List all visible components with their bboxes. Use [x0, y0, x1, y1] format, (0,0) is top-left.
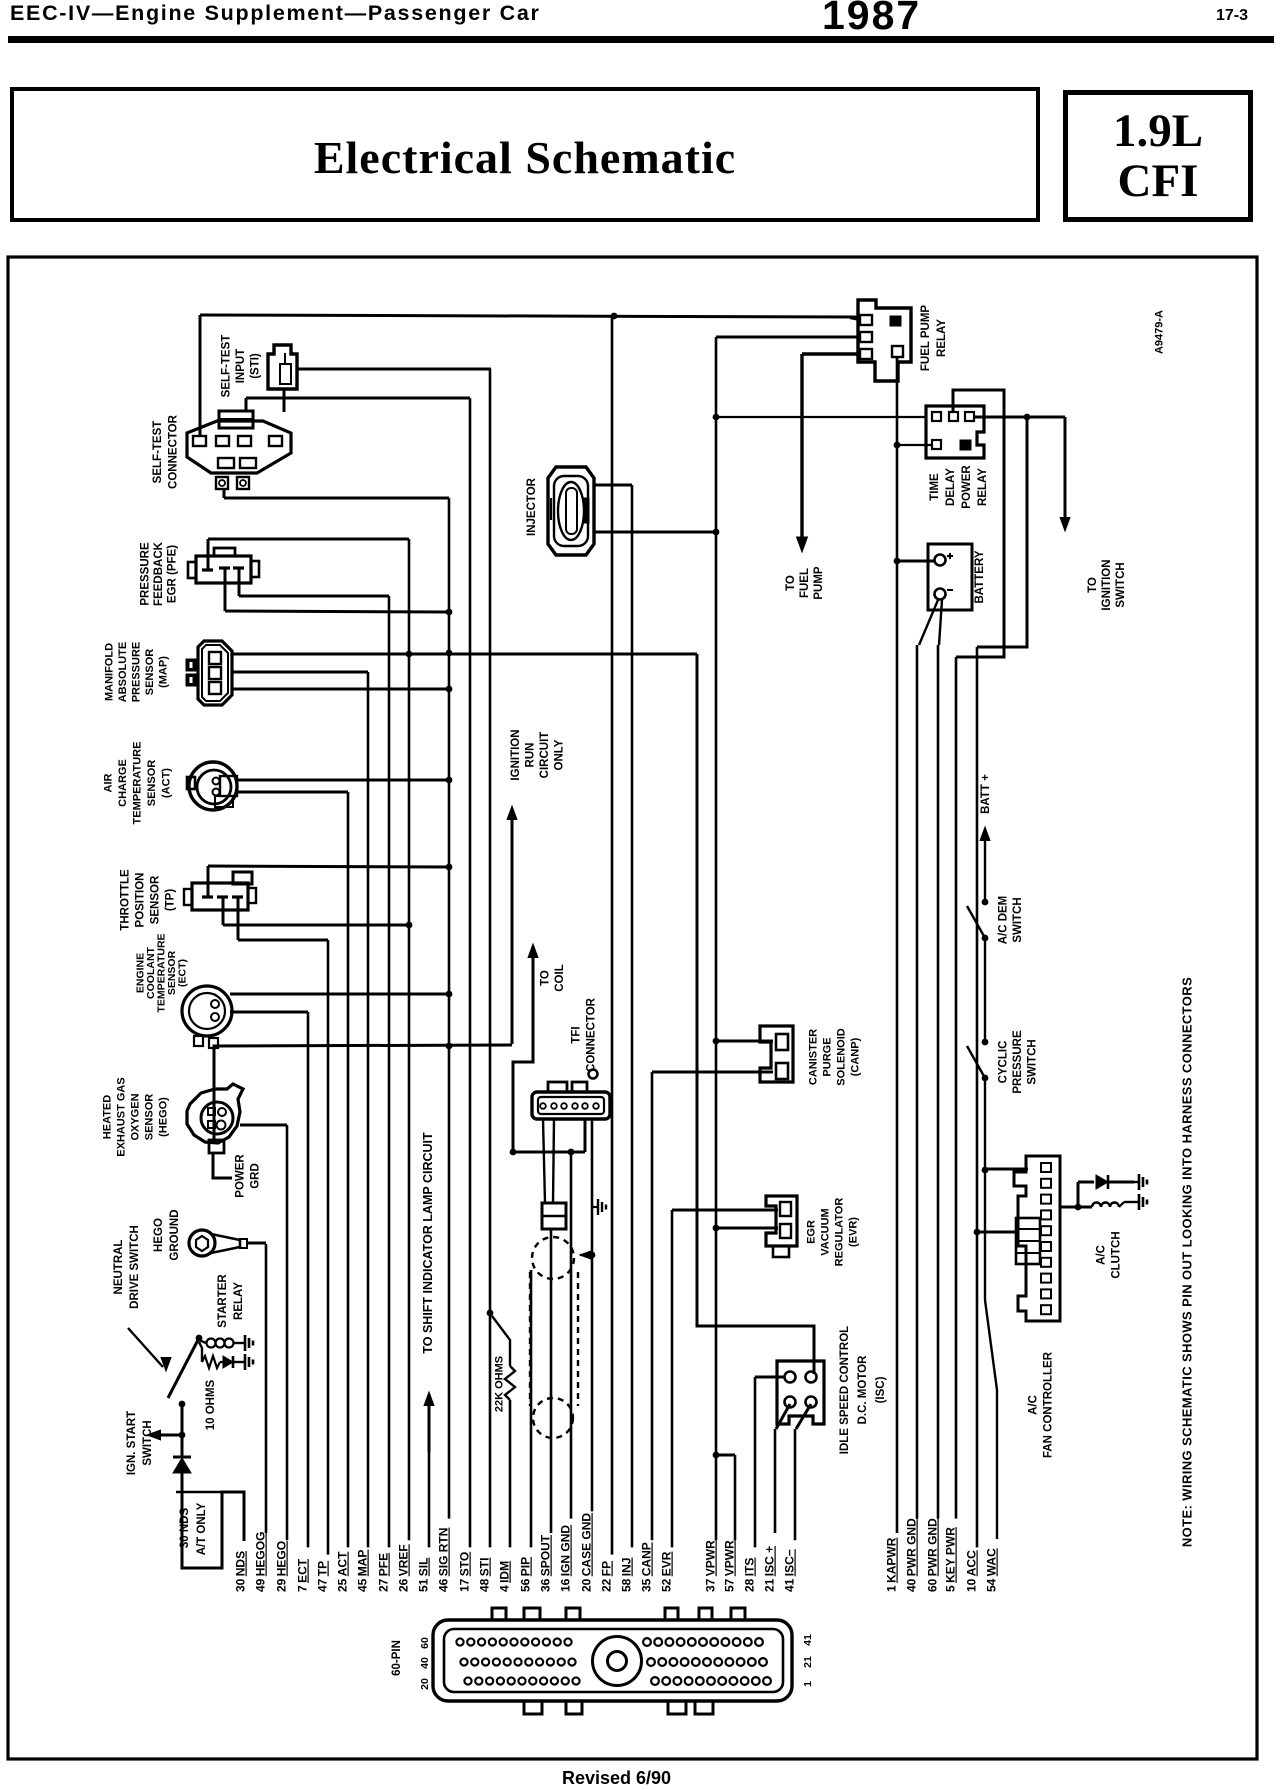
svg-text:4 IDM: 4 IDM — [498, 1561, 512, 1592]
svg-text:A/C DEM: A/C DEM — [998, 896, 1010, 945]
svg-text:20: 20 — [419, 1678, 431, 1690]
svg-text:FUEL PUMP: FUEL PUMP — [920, 305, 932, 372]
svg-text:(ECT): (ECT) — [177, 959, 189, 987]
svg-text:(ACT): (ACT) — [161, 768, 173, 798]
svg-text:30 NDS: 30 NDS — [179, 1508, 191, 1549]
svg-text:41: 41 — [802, 1634, 814, 1646]
svg-text:PRESSURE: PRESSURE — [139, 542, 151, 606]
svg-text:1: 1 — [802, 1681, 814, 1687]
svg-text:10 ACC: 10 ACC — [965, 1550, 979, 1592]
svg-text:SENSOR: SENSOR — [144, 649, 156, 696]
svg-text:OXYGEN: OXYGEN — [130, 1093, 142, 1140]
svg-text:PURGE: PURGE — [822, 1037, 834, 1076]
svg-text:POWER: POWER — [234, 1154, 246, 1198]
svg-text:10 OHMS: 10 OHMS — [205, 1379, 217, 1430]
svg-text:PRESSURE: PRESSURE — [131, 642, 143, 703]
svg-text:CONNECTOR: CONNECTOR — [168, 414, 180, 489]
svg-text:26 VREF: 26 VREF — [397, 1544, 411, 1592]
svg-text:21: 21 — [802, 1656, 814, 1668]
svg-text:17 STO: 17 STO — [458, 1552, 472, 1592]
svg-text:60 PWR GND: 60 PWR GND — [926, 1518, 940, 1592]
svg-text:25 ACT: 25 ACT — [336, 1551, 350, 1592]
svg-text:HEATED: HEATED — [102, 1095, 114, 1139]
svg-text:CHARGE: CHARGE — [117, 759, 129, 807]
svg-text:51 SIL: 51 SIL — [417, 1558, 431, 1592]
svg-text:CANISTER: CANISTER — [808, 1029, 820, 1085]
svg-text:FAN CONTROLLER: FAN CONTROLLER — [1042, 1351, 1054, 1458]
svg-text:IGNITION: IGNITION — [1101, 559, 1113, 610]
svg-text:(EVR): (EVR) — [848, 1217, 860, 1247]
svg-text:CYCLIC: CYCLIC — [997, 1041, 1009, 1084]
svg-text:46 SIG RTN: 46 SIG RTN — [437, 1528, 451, 1592]
svg-text:5 KEY PWR: 5 KEY PWR — [944, 1527, 958, 1592]
svg-text:TIME: TIME — [929, 473, 941, 501]
svg-text:SENSOR: SENSOR — [144, 1094, 156, 1141]
svg-text:PRESSURE: PRESSURE — [1012, 1030, 1024, 1094]
svg-text:SENSOR: SENSOR — [149, 875, 161, 924]
svg-text:RELAY: RELAY — [936, 319, 948, 357]
svg-text:35 CANP: 35 CANP — [640, 1542, 654, 1592]
svg-text:ONLY: ONLY — [554, 739, 566, 770]
svg-text:20 CASE GND: 20 CASE GND — [580, 1513, 594, 1592]
svg-text:MANIFOLD: MANIFOLD — [104, 643, 116, 701]
svg-text:TO: TO — [540, 970, 552, 986]
svg-text:TEMPERATURE: TEMPERATURE — [132, 742, 144, 825]
svg-text:1 KAPWR: 1 KAPWR — [885, 1537, 899, 1592]
svg-text:40 PWR GND: 40 PWR GND — [905, 1518, 919, 1592]
svg-text:GRD: GRD — [249, 1163, 261, 1189]
svg-text:21 ISC +: 21 ISC + — [763, 1546, 777, 1592]
svg-text:7 ECT: 7 ECT — [296, 1558, 310, 1592]
svg-text:IDLE SPEED CONTROL: IDLE SPEED CONTROL — [839, 1326, 851, 1454]
svg-text:30 NDS: 30 NDS — [234, 1551, 248, 1592]
svg-text:EXHAUST GAS: EXHAUST GAS — [116, 1077, 128, 1156]
svg-text:RUN: RUN — [525, 743, 537, 768]
svg-text:57 VPWR: 57 VPWR — [723, 1540, 737, 1592]
svg-text:29 HEGO: 29 HEGO — [275, 1541, 289, 1592]
svg-text:POSITION: POSITION — [134, 873, 146, 928]
svg-text:HEGO: HEGO — [153, 1218, 165, 1252]
svg-text:SWITCH: SWITCH — [1026, 1039, 1038, 1084]
svg-text:RELAY: RELAY — [233, 1282, 245, 1320]
svg-text:BATTERY: BATTERY — [974, 550, 986, 603]
svg-text:45 MAP: 45 MAP — [356, 1550, 370, 1592]
svg-text:THROTTLE: THROTTLE — [119, 869, 131, 931]
svg-text:TO: TO — [785, 575, 797, 591]
svg-text:NEUTRAL: NEUTRAL — [113, 1240, 125, 1295]
svg-text:TO SHIFT INDICATOR LAMP CIRCUI: TO SHIFT INDICATOR LAMP CIRCUIT — [421, 1132, 435, 1354]
svg-text:SWITCH: SWITCH — [1115, 562, 1127, 607]
svg-text:(TP): (TP) — [164, 889, 176, 912]
svg-text:GROUND: GROUND — [169, 1209, 181, 1260]
svg-text:56 PIP: 56 PIP — [519, 1557, 533, 1592]
svg-text:CIRCUIT: CIRCUIT — [539, 732, 551, 779]
svg-text:ABSOLUTE: ABSOLUTE — [117, 642, 129, 703]
svg-text:EGR (PFE): EGR (PFE) — [166, 545, 178, 603]
svg-text:NOTE: WIRING SCHEMATIC SHOWS P: NOTE: WIRING SCHEMATIC SHOWS PIN OUT LOO… — [1179, 977, 1194, 1547]
svg-text:22K OHMS: 22K OHMS — [494, 1356, 506, 1412]
svg-text:52 EVR: 52 EVR — [660, 1551, 674, 1592]
svg-text:AIR: AIR — [103, 773, 115, 792]
svg-text:A/C: A/C — [1095, 1245, 1107, 1265]
svg-text:VACUUM: VACUUM — [820, 1208, 832, 1255]
svg-text:36 SPOUT: 36 SPOUT — [539, 1534, 553, 1592]
svg-text:58 INJ: 58 INJ — [620, 1558, 634, 1592]
svg-text:PUMP: PUMP — [813, 566, 825, 600]
svg-text:48 STI: 48 STI — [478, 1558, 492, 1592]
svg-text:COIL: COIL — [554, 964, 566, 991]
svg-text:STARTER: STARTER — [217, 1274, 229, 1328]
svg-text:IGNITION: IGNITION — [510, 729, 522, 780]
svg-text:47 TP: 47 TP — [316, 1561, 330, 1592]
svg-text:BATT +: BATT + — [980, 774, 992, 814]
svg-text:(MAP): (MAP) — [158, 656, 170, 688]
svg-text:TFI: TFI — [570, 1026, 582, 1043]
svg-text:INJECTOR: INJECTOR — [526, 477, 538, 536]
svg-text:EGR: EGR — [806, 1220, 818, 1244]
svg-text:41 ISC−: 41 ISC− — [783, 1549, 797, 1592]
svg-text:49 HEGOG: 49 HEGOG — [254, 1532, 268, 1592]
svg-text:60-PIN: 60-PIN — [391, 1640, 403, 1676]
svg-text:DRIVE SWITCH: DRIVE SWITCH — [129, 1225, 141, 1309]
svg-text:40: 40 — [419, 1657, 431, 1669]
svg-text:22 FP: 22 FP — [600, 1561, 614, 1592]
svg-text:A9479-A: A9479-A — [1154, 310, 1166, 354]
svg-text:CONNECTOR: CONNECTOR — [585, 997, 597, 1072]
svg-text:POWER: POWER — [961, 465, 973, 509]
svg-text:SOLENOID: SOLENOID — [836, 1028, 848, 1086]
svg-text:28 ITS: 28 ITS — [743, 1558, 757, 1592]
svg-text:REGULATOR: REGULATOR — [834, 1198, 846, 1267]
svg-text:FUEL: FUEL — [799, 568, 811, 598]
svg-text:(STI): (STI) — [249, 353, 261, 379]
svg-text:A/T ONLY: A/T ONLY — [196, 1502, 208, 1555]
svg-text:54 WAC: 54 WAC — [985, 1548, 999, 1592]
svg-text:SWITCH: SWITCH — [142, 1420, 154, 1465]
svg-text:TO: TO — [1087, 577, 1099, 593]
svg-text:SELF-TEST: SELF-TEST — [152, 421, 164, 484]
svg-text:RELAY: RELAY — [977, 468, 989, 506]
svg-text:SWITCH: SWITCH — [1012, 897, 1024, 942]
svg-text:INPUT: INPUT — [235, 349, 247, 384]
svg-text:60: 60 — [419, 1637, 431, 1649]
svg-text:CLUTCH: CLUTCH — [1110, 1231, 1122, 1278]
svg-text:37 VPWR: 37 VPWR — [704, 1540, 718, 1592]
svg-text:SELF-TEST: SELF-TEST — [220, 335, 232, 398]
svg-text:(CANP): (CANP) — [850, 1037, 862, 1076]
svg-text:D.C. MOTOR: D.C. MOTOR — [857, 1355, 869, 1424]
svg-text:(HEGO): (HEGO) — [158, 1097, 170, 1137]
svg-text:FEEDBACK: FEEDBACK — [153, 541, 165, 606]
svg-text:(ISC): (ISC) — [875, 1376, 887, 1403]
svg-text:SENSOR: SENSOR — [146, 760, 158, 807]
svg-text:DELAY: DELAY — [945, 468, 957, 506]
svg-text:A/C: A/C — [1027, 1395, 1039, 1415]
svg-text:IGN. START: IGN. START — [126, 1411, 138, 1475]
svg-text:16 IGN GND: 16 IGN GND — [559, 1525, 573, 1592]
svg-text:27 PFE: 27 PFE — [377, 1553, 391, 1592]
